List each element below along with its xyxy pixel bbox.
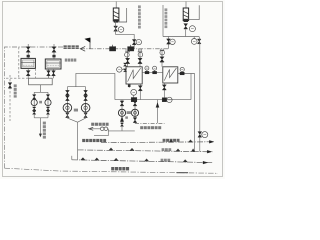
valve + circle pair on riser A bottom — [198, 132, 208, 138]
label: 冷凝水回收装置 — [82, 139, 106, 142]
label: vertical text softened water — [14, 84, 17, 97]
gauge circle beside valve B — [189, 26, 195, 32]
riser A x=199.8 — [198, 37, 201, 152]
arrow: steam source (open, left) — [80, 46, 85, 51]
wire: elbow right of vessel B — [189, 5, 200, 19]
dosing valve 2 — [46, 95, 49, 100]
gauge circle beside drop valve — [170, 39, 175, 44]
gauge circle beside valve A — [118, 27, 124, 33]
label above L1: heating supply text — [163, 139, 180, 142]
label: HP — [74, 109, 78, 112]
boundary dash-dot top-left + left + corner — [5, 47, 64, 168]
tank2 bottom valves pair — [47, 69, 56, 78]
pump2 suction valves — [84, 87, 88, 104]
label: 全回热系统 — [91, 123, 108, 126]
gauge circles above between-line — [145, 66, 157, 73]
dosing meter 2 — [45, 99, 51, 106]
condensate line y=99.6 — [115, 99, 191, 101]
flag symbol — [85, 38, 90, 49]
arrow line with meters OO — [89, 127, 109, 131]
bowtie valve + circle at hx2 stem foot — [162, 97, 172, 102]
hx2 outlet gauge — [180, 67, 184, 73]
softener header box — [29, 78, 53, 85]
wire: vessel B downpipe — [185, 30, 187, 37]
hx1 bottom stub + nub — [128, 84, 131, 88]
label tiny between meters — [39, 101, 42, 104]
condensate return vertical with up arrow x=157.5 — [156, 100, 159, 124]
label: 生产回用水 — [111, 167, 129, 170]
wire: bracket to text — [94, 129, 108, 136]
dosing double valves below meter1 — [32, 106, 36, 118]
label F2 — [125, 116, 128, 118]
pump1 HP — [63, 104, 72, 113]
left pump discharge valves — [66, 113, 70, 118]
wire: suction elbow from tanks to right riser — [76, 73, 115, 99]
right pump2 — [131, 109, 138, 116]
wire: y=130.9 stub line — [108, 130, 135, 132]
gauge circle hanging below header — [191, 37, 197, 45]
bottom dash-dot line L4 — [5, 168, 219, 173]
wire: elbow right of vessel A — [119, 8, 127, 22]
pipe line L1 y=142.4 — [101, 140, 214, 143]
label: 主蒸汽源 — [64, 45, 79, 49]
wire: vent up from vessel A — [115, 2, 117, 9]
hx1 feed b (x=140) — [138, 49, 143, 67]
right pump2 discharge valve + elbow — [133, 116, 137, 123]
valve below vessel B — [184, 24, 188, 29]
wire: between hx line y=72.6 — [142, 72, 163, 74]
pump1 suction valves — [66, 87, 70, 104]
tank1 bottom valve — [26, 68, 30, 78]
label: vertical pipe text top center — [138, 5, 141, 28]
wire: top right supply vertical x=163 — [162, 5, 164, 37]
label: KFP between right pumps — [127, 111, 132, 114]
vessel A — [113, 8, 119, 23]
hx1 bottom gauge circle — [131, 89, 137, 99]
dosing double valves below meter2 — [46, 106, 50, 118]
arrow: down to softener — [39, 134, 42, 138]
hx2 bottom valve x=164.3 — [162, 83, 166, 98]
hx2 feed (x=162) — [160, 49, 165, 67]
tank1 vent valve — [26, 44, 30, 58]
right pump1 — [118, 109, 125, 116]
right pump1 suction valve — [120, 100, 124, 110]
heat exchanger 1 — [126, 67, 142, 84]
wire: dosing bottom header + drop — [34, 118, 48, 135]
riser B x=194.6 — [194, 74, 196, 152]
label: vertical text 全自动软水器 — [43, 122, 46, 139]
hx2 outlet line y=73.5 — [178, 73, 195, 75]
valve on bypass line — [132, 40, 136, 45]
steam main dash-dot line — [81, 48, 169, 50]
valve on drop x=168.4 — [167, 39, 171, 44]
label: recovery device text — [140, 126, 161, 129]
pipe line L2 y=151.4 — [78, 148, 213, 153]
hx1 feed a (x=127.6) — [125, 49, 130, 67]
valve on left dashed pipe — [8, 83, 12, 89]
right pump1 discharge: up arrow + valve — [120, 116, 123, 130]
wire: left pump suction header — [67, 86, 85, 88]
bowtie valves on between-line — [145, 71, 149, 73]
tank1 return water tank — [21, 58, 35, 68]
dosing meter 1 — [31, 99, 37, 106]
dosing valve 1 — [33, 95, 36, 100]
pump2 HP — [81, 104, 90, 113]
valve bowtie on steam line x=130.7 — [128, 45, 134, 51]
wire: left pumps discharge Y-merge + drop — [67, 112, 85, 160]
label: L2 left label — [162, 148, 172, 151]
bowtie valve on hx2 outlet — [180, 72, 184, 75]
page frame — [3, 2, 223, 177]
hx1 bottom valve x=140.3 — [138, 84, 142, 100]
heat exchanger 2 — [163, 67, 178, 83]
wire: header y=36.5 — [163, 36, 199, 38]
tank2 return water tank — [45, 59, 61, 69]
gauge circle on bypass — [136, 39, 141, 44]
dashed pipe left x=10 — [9, 75, 11, 121]
dash line y=123.3 to recovery — [135, 122, 165, 124]
wire: drop x=168.4 from header to steam line — [167, 37, 169, 49]
tank2 vent valve — [52, 44, 56, 59]
label: L3 left label — [161, 159, 171, 162]
label: vertical pipe text right — [165, 8, 168, 28]
wire: vent up from vessel B — [185, 2, 187, 9]
wire: condensate up elbow to hx2 outlet — [190, 74, 192, 100]
pipe line L3 y=160-162.6 — [72, 156, 213, 164]
hx1 left gauge — [117, 67, 126, 72]
hx1 left inlet valve marks on box edge — [123, 63, 126, 72]
vessel B — [183, 8, 188, 22]
label: 回流水箱 — [65, 59, 77, 62]
bowtie valve on condensate line x=134 — [131, 98, 137, 102]
valve on riser A top — [197, 39, 201, 44]
valve below vessel A — [114, 26, 118, 31]
right pump2 suction valve — [133, 100, 137, 110]
wire: box down + tee — [34, 85, 48, 95]
dashed pipe from boundary — [18, 47, 20, 78]
valve bowtie on steam line x=111.2 — [110, 45, 116, 51]
darker dash on L4 — [177, 172, 189, 174]
wire: vessel A downpipe elbow to bypass — [116, 21, 135, 49]
